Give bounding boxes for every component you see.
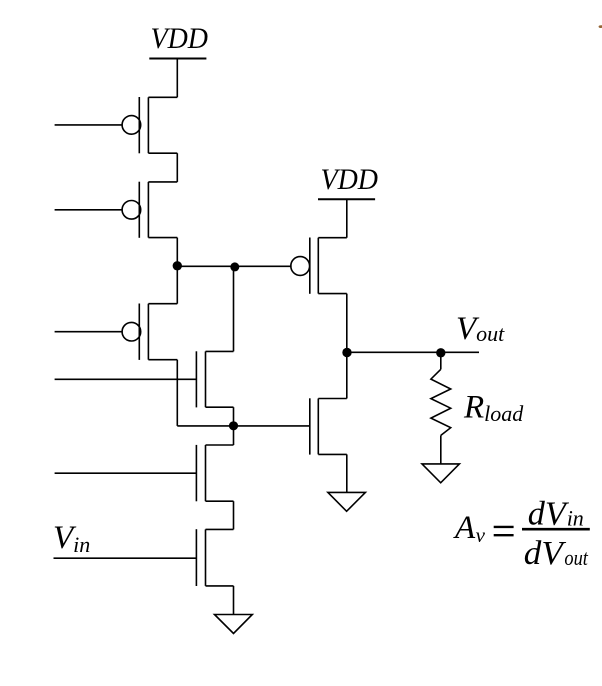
channel M7 xyxy=(205,445,207,501)
ground (under M6) xyxy=(328,492,366,511)
wire VDD2 stem xyxy=(346,199,348,238)
transistor M2 PMOS (second left) xyxy=(55,182,178,238)
svg-text:dV: dV xyxy=(528,496,570,533)
equals sign xyxy=(494,527,514,535)
bubble M4 xyxy=(291,257,310,276)
source lead M5 xyxy=(206,406,234,408)
ground (under Rload) xyxy=(422,464,459,483)
gate wire M8 (Vin) xyxy=(54,557,197,559)
wire M5 source to node C xyxy=(233,407,235,426)
channel M6 xyxy=(317,399,319,455)
VDD1 supply bar xyxy=(149,58,206,60)
gate wire M3 xyxy=(55,331,123,333)
bubble M3 xyxy=(122,322,141,341)
source lead M1 xyxy=(148,152,177,154)
transistor M8 NMOS (input device) xyxy=(54,529,234,586)
gate bar M8 xyxy=(195,529,197,586)
gate wire M7 xyxy=(55,472,197,474)
source lead M3 xyxy=(148,359,177,361)
drain lead M6 xyxy=(318,398,347,400)
wire resistor to ground xyxy=(440,435,442,464)
svg-text:out: out xyxy=(564,545,588,570)
drain lead M4 xyxy=(318,237,347,239)
transistor M7 NMOS xyxy=(55,445,234,501)
gate wire M1 xyxy=(55,124,123,126)
channel M2 xyxy=(147,182,149,238)
wire M3 source down to node C row xyxy=(176,360,178,426)
wire M2 source to node A and node A to M3 drain xyxy=(176,238,178,304)
gate bar M6 xyxy=(309,398,311,454)
wire output rail xyxy=(347,351,479,353)
svg-text:VDD: VDD xyxy=(321,164,379,196)
wire M1 source to M2 drain xyxy=(176,153,178,182)
drain lead M1 xyxy=(148,96,177,98)
wire node A to M4 gate xyxy=(177,265,291,267)
drain lead M7 xyxy=(206,444,234,446)
source lead M2 xyxy=(148,237,177,239)
channel M8 xyxy=(205,529,207,586)
node C xyxy=(229,421,238,430)
channel M4 xyxy=(317,238,319,294)
wire out2 to resistor xyxy=(440,353,442,370)
bubble M2 xyxy=(122,201,141,220)
drain lead M2 xyxy=(148,181,177,183)
transistor M4 PMOS (right) xyxy=(291,238,347,294)
channel M3 xyxy=(147,304,149,360)
transistor M5 NMOS (middle cascode) xyxy=(55,351,234,407)
svg-text:in: in xyxy=(567,505,584,530)
resistor Rload zigzag xyxy=(431,369,451,435)
gate wire M5 xyxy=(55,378,197,380)
svg-text:VDD: VDD xyxy=(151,23,209,55)
VDD2 supply bar xyxy=(318,198,375,200)
source lead M8 xyxy=(206,585,234,587)
wire M4 source to output node xyxy=(346,294,348,353)
source lead M6 xyxy=(318,453,347,455)
fraction bar xyxy=(522,528,590,531)
wire node B down to M5 drain xyxy=(233,266,235,351)
wire M6 source to ground xyxy=(346,454,348,492)
transistor M1 PMOS (top left) xyxy=(55,97,178,153)
transistor M6 NMOS (right) xyxy=(310,398,347,454)
wire M8 source to ground xyxy=(233,586,235,615)
source lead M7 xyxy=(206,500,234,502)
transistor M3 PMOS (third left) xyxy=(55,304,178,360)
gate bar M1 xyxy=(138,97,140,153)
gate bar M5 xyxy=(195,351,197,407)
wire VDD1 stem xyxy=(176,59,178,98)
equation Av = dVin/dVout xyxy=(453,496,590,573)
wire M7 source to M8 drain xyxy=(233,501,235,529)
gate bar M7 xyxy=(195,445,197,501)
gate bar M2 xyxy=(138,182,140,238)
ground (bottom left) xyxy=(215,615,253,634)
drain lead M3 xyxy=(148,303,177,305)
source lead M4 xyxy=(318,293,347,295)
node B xyxy=(230,262,239,271)
node out2 xyxy=(436,348,445,357)
wire node C to M7 drain xyxy=(233,426,235,445)
gate bar M3 xyxy=(138,304,140,360)
wire node C row horizontal to M6 gate xyxy=(177,425,309,427)
svg-text:dV: dV xyxy=(524,535,567,572)
node A xyxy=(173,261,182,270)
bubble M1 xyxy=(122,116,141,135)
speck artifact (top right edge) xyxy=(599,25,602,28)
gate wire M2 xyxy=(55,209,123,211)
gate bar M4 xyxy=(309,238,311,294)
wire output node to M6 drain xyxy=(346,352,348,398)
drain lead M8 xyxy=(206,528,234,530)
node out1 xyxy=(342,348,351,357)
channel M5 xyxy=(205,351,207,407)
channel M1 xyxy=(147,97,149,153)
drain lead M5 xyxy=(206,350,234,352)
